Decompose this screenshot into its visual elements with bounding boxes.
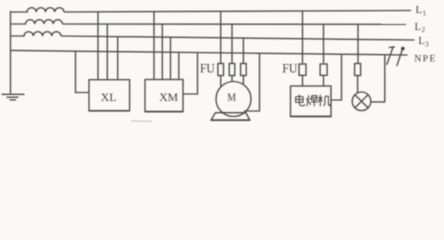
- wire lamp drop L2: [357, 24, 359, 63]
- wire L2 bus: [63, 23, 407, 25]
- wire welder N entry: [331, 54, 342, 100]
- wire motor lead 3: [242, 76, 244, 85]
- glyph 焊: [306, 95, 317, 106]
- wire XL drop L2: [106, 24, 108, 80]
- fuse FU motor phase 3: [241, 64, 247, 76]
- svg-text:M: M: [227, 91, 236, 104]
- wire welder lead 1: [302, 76, 304, 86]
- fuse FU lamp: [355, 64, 361, 76]
- label L3: [418, 35, 429, 48]
- distribution box XM: [145, 80, 183, 112]
- transformer winding L3 (coil): [11, 32, 62, 36]
- wire lamp lead: [357, 76, 359, 93]
- svg-text:2: 2: [422, 27, 426, 34]
- svg-text:FU: FU: [282, 61, 297, 76]
- wire motor drop L2: [231, 24, 233, 63]
- svg-text:FU: FU: [200, 60, 215, 75]
- motor M: [216, 82, 251, 117]
- motor pedestal: [211, 113, 250, 120]
- wire motor lead 1: [220, 76, 222, 87]
- wire neutral-point bus (left vertical): [10, 11, 12, 94]
- wire XM drop N: [178, 52, 180, 79]
- wire N/PE bus: [11, 50, 408, 55]
- glyph 电: [296, 95, 305, 106]
- wire XM drop L2: [161, 24, 163, 79]
- wire motor drop L1: [220, 11, 222, 63]
- conductor-count slash 2: [397, 48, 403, 66]
- transformer winding L2 (coil): [11, 20, 63, 24]
- glyph 机: [318, 95, 330, 107]
- svg-text:1: 1: [423, 10, 426, 17]
- wire L1 bus: [64, 11, 411, 13]
- faint print smudge: [131, 120, 152, 122]
- transformer winding L1 (coil): [11, 8, 65, 12]
- ground (transformer earthing electrode): [2, 94, 25, 100]
- conductor-count slash 1 with tick: [387, 47, 395, 65]
- label L1: [416, 4, 427, 17]
- wire XM PE entry: [183, 53, 198, 94]
- lamp EL: [352, 92, 371, 111]
- fuse FU motor phase 2: [229, 64, 235, 76]
- label 电焊机 (hand-drawn glyphs): [296, 95, 331, 107]
- wire motor lead 2: [231, 76, 233, 82]
- fuse FU motor phase 1: [218, 64, 224, 76]
- svg-text:XM: XM: [159, 91, 178, 104]
- wire motor drop L3: [242, 38, 244, 63]
- wire welder drop L2: [323, 24, 325, 63]
- wire XM drop L3: [170, 37, 172, 79]
- svg-text:XL: XL: [101, 91, 117, 104]
- wire XL drop L1: [97, 12, 99, 80]
- distribution box XL: [89, 80, 130, 111]
- wire XM drop L1: [153, 12, 155, 80]
- svg-text:L: L: [418, 35, 425, 47]
- wire XL drop L3: [117, 37, 119, 80]
- wire lamp N return: [371, 55, 385, 102]
- svg-text:L: L: [415, 21, 422, 33]
- svg-text:3: 3: [425, 41, 429, 48]
- wire L3 bus: [61, 36, 415, 40]
- fuse FU welder phase 1: [299, 64, 306, 75]
- wire welder drop L1: [302, 11, 304, 63]
- svg-text:L: L: [416, 4, 423, 16]
- wire welder lead 2: [323, 76, 325, 86]
- svg-text:NPE: NPE: [414, 54, 436, 65]
- welder box (dian han ji): [291, 86, 332, 117]
- wire XL neutral entry: [76, 51, 90, 92]
- wire motor PE connection: [244, 53, 260, 111]
- fuse FU welder phase 2: [320, 64, 327, 75]
- node PEN split dot: [401, 47, 405, 51]
- label L2: [415, 21, 426, 34]
